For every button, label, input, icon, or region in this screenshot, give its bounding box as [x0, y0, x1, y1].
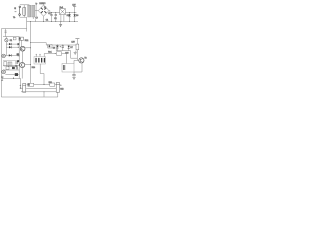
- svg-text:Si: Si: [14, 8, 16, 10]
- diode Dmid: [57, 45, 59, 51]
- capacitor Cb1: [20, 79, 26, 93]
- svg-text:D5: D5: [67, 15, 69, 17]
- row wires y65 y70: [3, 66, 19, 70]
- wire switch-fuse bottom: [20, 16, 27, 18]
- wire Q1 collector: [25, 47, 31, 49]
- striped box connector: [34, 54, 46, 65]
- ground G1: [59, 22, 62, 27]
- svg-text:7b: 7b: [13, 17, 16, 19]
- capacitor Cb2: [56, 83, 63, 93]
- wiring loop box: [1, 29, 57, 97]
- wire striped box down: [40, 64, 44, 85]
- row wire y60: [3, 59, 19, 61]
- diode Dc: [5, 54, 19, 56]
- svg-text:R11: R11: [25, 40, 30, 42]
- left column vertical: [5, 42, 7, 56]
- capacitor C8: [60, 45, 64, 51]
- wire Q2 emitter: [21, 68, 23, 79]
- wire R11 to Q1: [20, 40, 22, 46]
- LED L1: [2, 54, 6, 58]
- svg-text:Re1: Re1: [60, 7, 63, 9]
- svg-text:Tr: Tr: [35, 3, 37, 5]
- diode Da: [6, 43, 19, 45]
- row wire y78.5: [2, 77, 20, 79]
- capacitor bars: [16, 66, 17, 69]
- resistor Rbot1: [28, 83, 34, 86]
- wire y53.5: [44, 53, 66, 63]
- rail y51.7: [56, 45, 70, 51]
- wire Q1 emitter: [22, 51, 24, 62]
- resistor Ra: [4, 61, 7, 66]
- svg-text:C1: C1: [46, 19, 48, 21]
- svg-text:+: +: [60, 46, 61, 48]
- trimmer ticks: [4, 29, 6, 37]
- wire +V top right: [65, 11, 76, 13]
- power symbol right: [71, 39, 79, 45]
- blob component: [12, 67, 15, 70]
- relay box with X: [60, 7, 66, 22]
- resistor R12: [56, 52, 61, 55]
- svg-text:D6: D6: [76, 15, 78, 17]
- wire bridge out: [49, 11, 60, 13]
- wire bridge bottom: [43, 16, 45, 21]
- pot hatched: [8, 62, 12, 66]
- resistor Rb: [6, 67, 9, 70]
- bridge rectifier B1: [38, 3, 50, 16]
- blob component2: [15, 73, 18, 76]
- wire mains top: [20, 4, 29, 6]
- svg-text:R21: R21: [49, 82, 52, 84]
- rail y91.8: [21, 90, 56, 93]
- svg-text:C7: C7: [35, 17, 37, 19]
- wire Q3 emitter: [74, 63, 82, 72]
- transistor Q3: [79, 58, 87, 63]
- svg-text:+: +: [60, 84, 62, 86]
- bus x30.6: [29, 21, 32, 84]
- resistor Rr: [76, 44, 79, 60]
- diode Db: [6, 46, 19, 48]
- wire y42.6: [31, 43, 47, 45]
- svg-text:1N: 1N: [53, 48, 56, 50]
- row1 wire: [3, 36, 19, 38]
- transformer TR1: [28, 3, 39, 19]
- terminal blob row1: [17, 43, 19, 45]
- svg-text:B250C: B250C: [39, 3, 46, 5]
- capacitor left edge: [1, 76, 3, 80]
- svg-text:T3: T3: [84, 58, 86, 60]
- component K: [48, 44, 56, 53]
- rail y84.6: [27, 83, 57, 86]
- tick with label N: [35, 17, 37, 21]
- resistor Rbot2: [49, 82, 55, 86]
- wire y47.3: [46, 44, 76, 47]
- svg-text:Re1: Re1: [48, 51, 51, 53]
- diode D5: [67, 12, 71, 22]
- wire down to box: [26, 17, 28, 31]
- small box row1: [13, 37, 16, 40]
- switch S1: [13, 6, 21, 19]
- transistor Q1: [17, 46, 25, 57]
- resistor R11: [19, 37, 29, 42]
- svg-text:D1: D1: [44, 7, 46, 9]
- terminal blob row3: [17, 53, 19, 55]
- terminal dot row2: [18, 47, 19, 48]
- capacitor Cc: [15, 61, 17, 68]
- svg-text:D7: D7: [70, 47, 72, 49]
- opto M1: [5, 37, 12, 42]
- svg-text:+: +: [20, 85, 22, 87]
- fuse F1: [23, 5, 26, 17]
- svg-text:12V: 12V: [71, 41, 75, 43]
- svg-text:C2: C2: [54, 18, 56, 20]
- svg-text:K1: K1: [10, 40, 12, 42]
- transistor Q2: [20, 62, 25, 67]
- zener D6: [74, 12, 79, 22]
- terminal blob row y60: [17, 60, 19, 62]
- capacitor C1: [46, 12, 53, 22]
- svg-text:C1: C1: [48, 13, 50, 15]
- rail 0V: [27, 20, 78, 23]
- row wire y74.6: [5, 74, 19, 76]
- svg-text:T2: T2: [17, 55, 19, 57]
- diode on wire: [68, 45, 73, 51]
- svg-text:C12: C12: [60, 88, 63, 90]
- svg-text:R14: R14: [32, 67, 35, 69]
- rail y88.7: [26, 88, 56, 90]
- ground G2: [74, 51, 78, 55]
- relay box K1: [62, 64, 74, 73]
- wire Q2 collector: [25, 63, 31, 65]
- ground G3: [72, 72, 75, 80]
- wire Q3 base: [74, 60, 79, 63]
- wire x70.6 down: [71, 51, 78, 59]
- capacitor C2: [54, 12, 57, 22]
- wire x44 bottom: [43, 92, 45, 97]
- power arrow +12V: [72, 5, 76, 13]
- LED L2: [2, 70, 6, 74]
- bus x19: [18, 37, 20, 79]
